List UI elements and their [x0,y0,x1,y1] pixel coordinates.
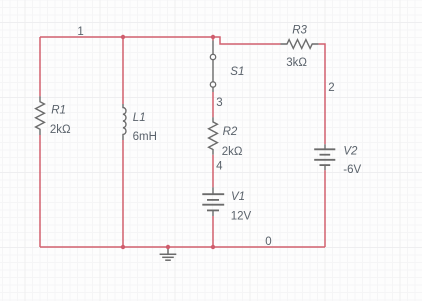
label R2 [223,126,238,138]
battery V2 [314,144,335,170]
junction node1-L1 [121,35,125,39]
label S1 [230,66,244,78]
wire switch branch top stub [212,37,214,41]
label V2 [343,146,358,158]
wire left branch upper [39,37,41,96]
wire node 4 segment [212,155,214,188]
node 3 label [216,97,222,109]
svg-text:R2: R2 [223,126,238,138]
label R1 [51,104,66,116]
wire V2 to bottom corner [324,170,326,247]
inductor L1 [123,104,126,140]
junction node1-switch [211,35,215,39]
value 12V [231,210,252,222]
svg-text:3: 3 [216,97,222,109]
svg-text:L1: L1 [133,112,146,124]
wire left branch lower [39,135,41,247]
resistor R1 [36,96,45,135]
resistor R3 [281,40,319,49]
switch S1 [210,41,215,93]
value 3kΩ [286,57,307,69]
svg-text:V2: V2 [343,146,358,158]
junction bottom-ground [166,245,170,249]
svg-text:2kΩ: 2kΩ [50,124,71,136]
wire top: node 1 horizontal [40,36,213,38]
svg-text:2: 2 [328,82,334,94]
battery V1 [202,187,224,216]
value 2kΩ (R1) [50,124,71,136]
svg-text:V1: V1 [231,191,245,203]
value 6mH [133,131,157,143]
junction bottom-L1 [121,245,125,249]
label R3 [292,24,307,36]
svg-text:3kΩ: 3kΩ [286,57,307,69]
ground [160,247,177,260]
wire V1 to bottom [212,216,214,247]
svg-text:S1: S1 [230,66,244,78]
wire node 3 segment [212,92,214,117]
node 2 label [328,82,334,94]
node 1 label [77,26,83,38]
wire bottom: node 0 horizontal [40,246,325,248]
junction bottom-V1 [211,245,215,249]
wire R3 to right corner, down node 2 [319,44,325,144]
value -6V [343,164,361,176]
svg-text:2kΩ: 2kΩ [222,146,243,158]
svg-text:-6V: -6V [343,164,361,176]
svg-text:R1: R1 [51,104,66,116]
svg-text:4: 4 [216,161,223,173]
node 0 label [265,236,271,248]
label L1 [133,112,146,124]
resistor R2 [209,117,218,155]
svg-text:1: 1 [77,26,83,38]
label V1 [231,191,245,203]
wire step from node 1 to R3 [213,37,281,44]
svg-text:0: 0 [265,236,271,248]
node 4 label [216,161,223,173]
svg-text:6mH: 6mH [133,131,157,143]
value 2kΩ (R2) [222,146,243,158]
wire L1 branch upper [122,37,124,104]
svg-text:12V: 12V [231,210,252,222]
svg-text:R3: R3 [292,24,307,36]
wire L1 branch lower [122,140,124,247]
